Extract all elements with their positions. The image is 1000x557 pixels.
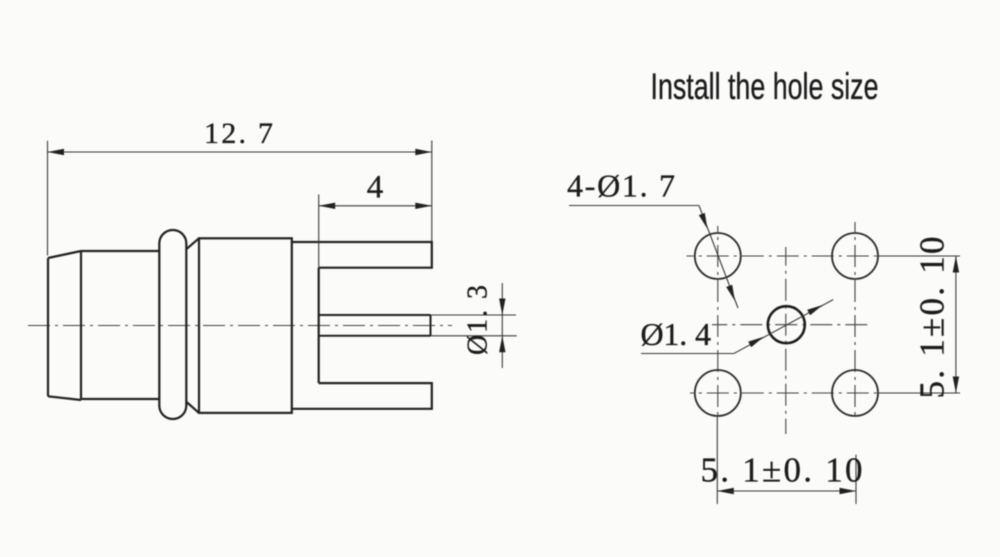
dimension 4: extension line [318,195,320,268]
dimension 4: right arrow [415,203,432,209]
connector bead (rounded flange) [159,230,186,419]
hole pattern: right column centerline [854,222,856,420]
svg-text:Ø1. 4: Ø1. 4 [640,316,711,352]
dimension 12.7: extension lines [48,141,432,256]
leader 4-Ø1.7: upper arrow [699,213,708,229]
center hole (Ø1.4) [768,306,805,343]
groove slants between bead and body [187,238,199,413]
bottom dimension: left arrow [717,488,734,494]
top PCB leg (prong) [292,242,432,268]
dimension 12.7: left arrow [48,149,65,155]
right dimension 5.1±0.10: dimension line [955,256,957,393]
dimension 4: dimension line [319,205,432,207]
svg-text:Ø1. 3: Ø1. 3 [463,285,494,355]
hole top-left (Ø1.7) [695,233,741,279]
leader Ø1.4: upper-right arrow [807,305,823,315]
right dimension: top arrow [953,256,959,273]
right dimension: bottom arrow [953,377,959,394]
leader Ø1.4: line [641,300,833,354]
right dimension 5.1±0.10: extension lines [877,256,960,393]
bottom dimension 5.1±0.10: extension lines [717,417,856,504]
hole pattern: middle row centerline [712,324,872,326]
hole pattern: bottom row centerline [690,392,880,394]
connector side view: centerline [28,325,452,327]
bottom dimension: right arrow [840,488,857,494]
connector mid section [81,251,159,399]
bottom PCB leg (prong) [292,383,432,409]
dimension Ø1.3: bottom arrow [499,336,505,353]
hole top-right (Ø1.7) [832,233,878,279]
hole bottom-right (Ø1.7) [832,370,878,416]
svg-text:5. 1±0. 10: 5. 1±0. 10 [913,237,952,399]
bottom dimension 5.1±0.10: dimension line [717,490,856,492]
center pin [319,315,431,336]
dimension Ø1.3: top arrow [499,299,505,316]
svg-text:4-Ø1. 7: 4-Ø1. 7 [567,168,675,204]
inner vertical edge between prongs [318,268,320,383]
hole pattern: top row centerline [687,255,881,257]
hole pattern: left column centerline [717,226,719,418]
dimension 4: left arrow [319,203,336,209]
svg-text:4: 4 [367,170,384,206]
svg-text:Install the hole size: Install the hole size [651,66,879,107]
leader Ø1.4: lower-left arrow [748,337,764,347]
hole pattern: center column centerline [785,247,787,434]
leader 4-Ø1.7: line [569,206,738,309]
hole bottom-left (Ø1.7) [695,370,741,416]
dimension Ø1.3: dimension line [501,283,503,368]
dimension Ø1.3: extension lines [431,315,517,336]
dimension 12.7: right arrow [415,149,432,155]
dimension 12.7: dimension line [48,151,432,153]
svg-text:5. 1±0. 10: 5. 1±0. 10 [701,451,863,490]
svg-text:12. 7: 12. 7 [204,117,273,150]
leader 4-Ø1.7: lower arrow [726,285,735,301]
connector main body [199,238,292,413]
connector nose (tapered front) [48,251,81,400]
